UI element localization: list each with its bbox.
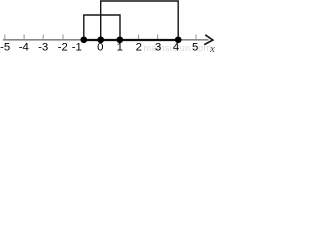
svg-text:-1: -1 [72, 42, 82, 54]
svg-text:x: x [209, 44, 215, 53]
svg-text:4: 4 [173, 42, 179, 54]
svg-text:0: 0 [97, 42, 103, 54]
dot at 0 [97, 36, 104, 43]
svg-text:-5: -5 [0, 42, 10, 54]
svg-text:3: 3 [155, 42, 161, 54]
bracket over [-1,1] [84, 15, 120, 38]
svg-text:1: 1 [117, 42, 123, 54]
tick -4 [23, 35, 25, 40]
tick -5 [4, 35, 6, 40]
svg-text:5: 5 [192, 42, 198, 54]
tick 3 [157, 35, 159, 40]
dot at 4 [175, 36, 182, 43]
bracket over [0,4] [101, 1, 179, 38]
svg-text:2: 2 [136, 42, 142, 54]
svg-text:-4: -4 [19, 42, 29, 54]
dot at -1 [80, 36, 87, 43]
number line (gray axis) [3, 39, 209, 41]
tick -2 [62, 35, 64, 40]
svg-text:-2: -2 [58, 42, 68, 54]
tick -3 [42, 35, 44, 40]
axis arrowhead (right) [205, 35, 213, 44]
highlighted segment from -1 to 4 (black) [84, 39, 178, 41]
svg-text:-3: -3 [38, 42, 48, 54]
tick 5 [195, 35, 197, 40]
tick 2 [138, 35, 140, 40]
dot at 1 [116, 36, 123, 43]
